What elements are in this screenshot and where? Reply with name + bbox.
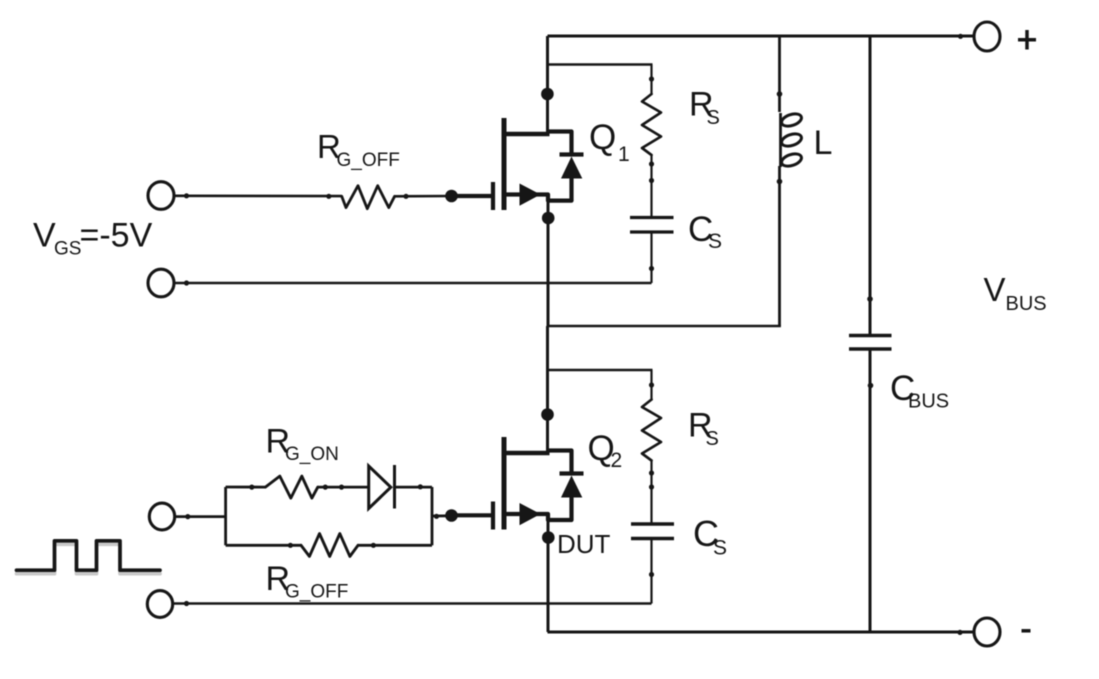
wire snubber1 right vertical top lead bbox=[650, 65, 652, 96]
wire CS down to return bbox=[650, 232, 652, 283]
wire box output to Q2 gate junction bbox=[432, 514, 452, 517]
svg-text:S: S bbox=[706, 428, 719, 450]
wire Q2 source down to bottom rail bbox=[547, 517, 550, 632]
pulse waveform symbol (gate drive input) bbox=[17, 544, 161, 573]
wire Q1 source down to switch node bbox=[547, 196, 550, 326]
RG network box left vertical bbox=[224, 487, 227, 545]
resistor RS (lower snubber) bbox=[642, 400, 661, 461]
node Q1 source junction dot bbox=[542, 212, 555, 225]
wire switch node to inductor bbox=[548, 325, 781, 328]
capacitor CBUS bbox=[849, 334, 892, 338]
wire CBUS top lead bbox=[869, 36, 872, 336]
svg-text:V: V bbox=[984, 271, 1006, 308]
resistor RG_ON bbox=[265, 476, 317, 498]
wire snubber2 right vertical top lead bbox=[650, 370, 652, 401]
wire Q1 drain to top rail bbox=[546, 36, 549, 134]
wire RS to CS (lower) bbox=[650, 461, 652, 525]
svg-text:G_OFF: G_OFF bbox=[285, 582, 348, 603]
label - bbox=[1022, 629, 1031, 633]
terminal gate drive input bbox=[149, 503, 174, 530]
svg-text:S: S bbox=[713, 537, 727, 560]
inductor L bottom wire bbox=[778, 166, 781, 326]
wire input to RG network box bbox=[175, 515, 226, 518]
svg-text:=-5V: =-5V bbox=[80, 217, 153, 255]
node Q2 drain junction dot bbox=[541, 408, 554, 421]
transistor Q2 (DUT) bbox=[452, 437, 584, 530]
node gate junction Q1 bbox=[445, 190, 458, 203]
wire VGS return / snubber1 bottom bbox=[175, 282, 652, 284]
junction endpoint dot on top rail bbox=[958, 34, 963, 39]
resistor RG_OFF (lower gate resistor) bbox=[301, 534, 358, 557]
svg-text:Q: Q bbox=[589, 118, 616, 157]
wire VGS+ to RG_OFF bbox=[175, 195, 342, 198]
svg-text:GS: GS bbox=[54, 239, 81, 260]
svg-text:DUT: DUT bbox=[557, 529, 611, 559]
wire CBUS bottom lead bbox=[869, 349, 872, 632]
junction endpoint dot on bottom rail bbox=[957, 630, 962, 635]
svg-text:G_ON: G_ON bbox=[285, 444, 339, 465]
inductor L branch wire (top) bbox=[778, 36, 781, 112]
terminal + (positive bus terminal) bbox=[974, 22, 1000, 51]
label + bbox=[1018, 38, 1036, 42]
diode D1 (gate-on path) bbox=[369, 466, 391, 509]
wire RG_ON to diode D1 bbox=[318, 486, 369, 489]
svg-text:BUS: BUS bbox=[908, 391, 949, 413]
node Q1 drain junction dot bbox=[541, 88, 554, 101]
resistor RG_OFF (upper gate resistor) bbox=[342, 186, 395, 209]
svg-text:G_OFF: G_OFF bbox=[337, 150, 400, 171]
svg-text:S: S bbox=[707, 107, 720, 129]
transistor Q1 bbox=[452, 118, 584, 210]
wire snubber2 top bbox=[548, 369, 653, 371]
wire diode to box right bbox=[395, 486, 433, 489]
node gate junction Q2 bbox=[445, 509, 458, 522]
wire RS to CS bbox=[650, 155, 652, 218]
RG network box right vertical bbox=[431, 487, 434, 545]
inductor L coil bbox=[780, 112, 803, 169]
wire bottom branch lead bbox=[226, 544, 301, 547]
wire gate return / snubber2 bottom bbox=[173, 602, 652, 604]
svg-text:2: 2 bbox=[611, 449, 623, 472]
capacitor CS (upper snubber) bbox=[630, 216, 674, 219]
terminal VGS gate (upper left) bbox=[148, 182, 174, 210]
wire bottom rail (- bus) bbox=[548, 631, 974, 634]
wire top rail (+ bus) bbox=[548, 35, 974, 38]
resistor RS (upper snubber) bbox=[642, 94, 661, 155]
wire RG_OFF to gate junction bbox=[395, 195, 452, 198]
svg-text:1: 1 bbox=[618, 143, 630, 166]
svg-text:BUS: BUS bbox=[1006, 293, 1047, 315]
wire RG_OFF to box right bbox=[358, 544, 432, 547]
capacitor CS (lower snubber) bbox=[631, 522, 674, 526]
wire top branch lead bbox=[226, 486, 266, 489]
svg-text:S: S bbox=[708, 230, 722, 253]
terminal VGS return (lower left of top section) bbox=[148, 269, 174, 297]
wire snubber1 top bbox=[548, 63, 653, 65]
wire CS down to return (lower) bbox=[650, 539, 652, 604]
terminal gate drive return (bottom left) bbox=[147, 591, 172, 618]
terminal - (negative bus terminal) bbox=[974, 618, 1000, 646]
wire switch node down to Q2 drain bbox=[546, 326, 549, 453]
node Q2 source junction dot (DUT source) bbox=[542, 531, 555, 544]
svg-text:L: L bbox=[814, 124, 833, 162]
svg-text:V: V bbox=[33, 217, 56, 255]
